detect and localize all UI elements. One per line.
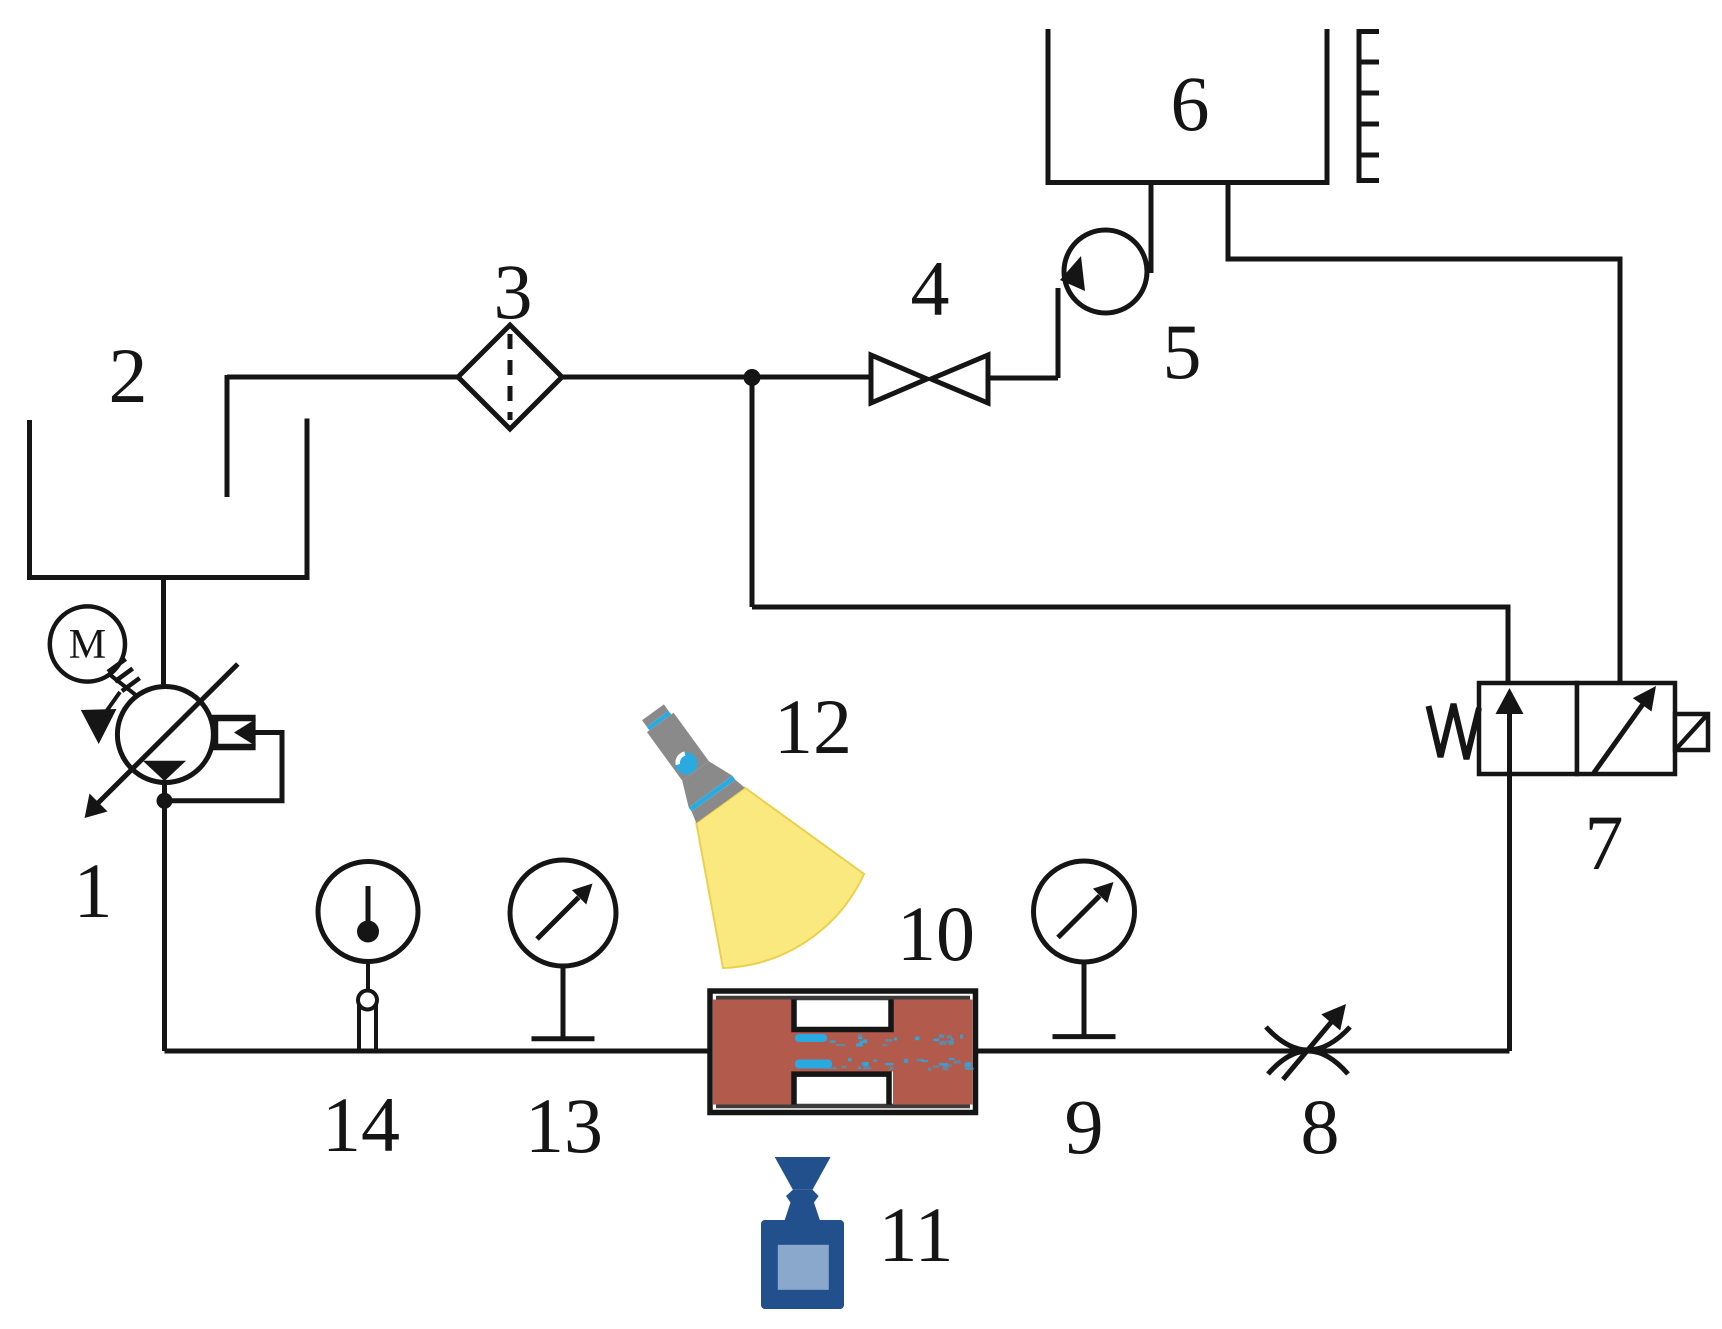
svg-text:12: 12 <box>774 683 852 770</box>
svg-text:4: 4 <box>911 245 950 332</box>
svg-text:9: 9 <box>1065 1083 1104 1170</box>
svg-text:7: 7 <box>1585 799 1624 886</box>
svg-text:M: M <box>69 622 106 668</box>
svg-text:1: 1 <box>74 847 113 934</box>
svg-text:10: 10 <box>897 890 975 977</box>
svg-text:13: 13 <box>525 1082 603 1169</box>
svg-text:2: 2 <box>109 332 148 419</box>
svg-text:14: 14 <box>322 1081 400 1168</box>
svg-text:3: 3 <box>494 248 533 335</box>
svg-text:11: 11 <box>878 1191 953 1278</box>
svg-text:8: 8 <box>1301 1083 1340 1170</box>
svg-text:5: 5 <box>1163 308 1202 395</box>
svg-text:6: 6 <box>1171 60 1210 147</box>
